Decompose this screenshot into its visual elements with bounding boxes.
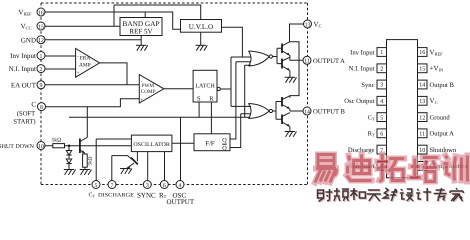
pin 14 OUTPUT B [303, 107, 346, 116]
pin 8 soft start [13, 101, 45, 126]
svg-text:12: 12 [419, 115, 425, 121]
svg-text:OUTPUT A: OUTPUT A [313, 58, 345, 65]
wire F/F Q to NOR A [230, 62, 251, 139]
pin 4 OSC OUTPUT [167, 181, 195, 207]
watermark slogan dark characters [318, 188, 465, 203]
svg-text:5kΩ: 5kΩ [52, 138, 62, 144]
svg-text:Q: Q [222, 137, 227, 144]
transistor Q4 output B bottom [282, 113, 290, 127]
wire latch output to NOR gates [220, 57, 251, 106]
svg-text:10: 10 [38, 144, 44, 150]
svg-text:LATCH: LATCH [195, 83, 215, 89]
svg-text:S: S [197, 95, 201, 102]
svg-text:15: 15 [38, 24, 44, 30]
NOR gate A [249, 51, 273, 66]
pin box 6 [377, 129, 387, 138]
pin box 10 [418, 145, 428, 154]
wire RT to pin 6 [164, 152, 166, 181]
wire blanking-shutdown line [69, 65, 251, 117]
svg-text:N.I. Input: N.I. Input [9, 65, 36, 73]
transistor Q2 output A bottom [282, 57, 290, 70]
svg-text:START): START) [13, 118, 35, 125]
IC boundary dashed box [41, 3, 308, 185]
svg-text:GND: GND [21, 36, 36, 44]
svg-text:REF 5V: REF 5V [129, 28, 152, 36]
pin 15 VCC [21, 22, 45, 31]
svg-text:CT: CT [89, 193, 96, 199]
node shutdown junction [68, 145, 71, 148]
ground (diodes) [64, 170, 76, 175]
svg-text:VC: VC [314, 21, 322, 29]
op-amp PWM comparator [139, 75, 164, 104]
svg-text:N.I. Input: N.I. Input [349, 66, 375, 73]
svg-text:PWM: PWM [142, 83, 155, 89]
pin 1 Inv Input [10, 52, 45, 61]
wire output A node [290, 55, 303, 60]
wire oscillator to F/F [172, 142, 194, 144]
pin 9 EA OUT [11, 81, 45, 90]
svg-text:(SOFT: (SOFT [17, 110, 35, 117]
svg-text:3: 3 [380, 83, 383, 89]
wire soft start line to PWM + input [46, 99, 140, 107]
svg-text:9: 9 [40, 83, 43, 89]
wire sync to pin 3 [147, 152, 149, 181]
wire VCC top supply rail [114, 5, 201, 26]
pin box 9 [418, 162, 428, 171]
pin box 16 [418, 48, 428, 57]
NOR gate B [249, 104, 273, 119]
svg-text:13: 13 [305, 22, 311, 28]
svg-text:Inv Input: Inv Input [350, 49, 375, 56]
wire R2 to ground [84, 167, 86, 169]
pin 7 DISCHARGE [98, 181, 135, 199]
pin box 11 [418, 129, 428, 138]
svg-text:+VIN: +VIN [430, 65, 444, 73]
wire osc output to pin 4 [180, 117, 182, 180]
pin 6 RT [159, 181, 168, 200]
diode D1 [66, 146, 71, 155]
wire VREF line [45, 12, 181, 29]
svg-text:5: 5 [95, 183, 98, 189]
svg-text:6: 6 [163, 183, 166, 189]
transistor Q5 shutdown [80, 107, 87, 153]
latch U4 [193, 70, 217, 102]
svg-text:SYNC: SYNC [137, 191, 156, 199]
pin 5 CT [89, 181, 101, 199]
ground (output B) [285, 132, 297, 137]
svg-text:Inv Input: Inv Input [10, 52, 36, 60]
ground (band gap) [136, 45, 148, 50]
wire latch R input / clock [210, 102, 212, 134]
pin 16 VREF [18, 8, 45, 17]
wire F/F Qbar to NOR B [230, 114, 251, 148]
svg-text:U.V.L.O: U.V.L.O [189, 23, 213, 31]
wire shutdown line into oscillator [45, 145, 131, 147]
svg-text:16: 16 [419, 50, 425, 56]
pin box 13 [418, 96, 428, 105]
svg-text:13: 13 [419, 99, 425, 105]
svg-text:VREF: VREF [430, 48, 444, 56]
wire GND line [45, 39, 141, 41]
svg-text:VC: VC [430, 97, 438, 105]
svg-text:OUTPUT: OUTPUT [167, 198, 195, 205]
pin 2 N.I. Input [9, 65, 45, 74]
svg-text:8: 8 [40, 105, 43, 111]
oscillator U5 [131, 135, 172, 152]
svg-text:12: 12 [38, 38, 44, 44]
svg-text:Ground: Ground [430, 114, 451, 121]
ground (R2) [80, 170, 92, 175]
svg-text:AMP: AMP [79, 63, 91, 69]
flip-flop U6 [194, 134, 230, 152]
svg-text:SHUT DOWN: SHUT DOWN [0, 144, 35, 150]
svg-text:1: 1 [40, 54, 43, 60]
pin box 4 [377, 96, 387, 105]
svg-text:R: R [209, 95, 214, 102]
wire output B node [290, 109, 303, 111]
wire UVLO output to NOR gates [222, 27, 243, 57]
wire PWM comparator output to latch [164, 88, 193, 90]
wire band gap ground stem [140, 36, 142, 46]
latch output bubble [217, 87, 220, 90]
ground (UVLO) [196, 45, 208, 50]
svg-text:5kΩ: 5kΩ [88, 156, 94, 165]
pin box 3 [377, 80, 387, 89]
svg-text:14: 14 [304, 109, 310, 115]
svg-text:ERA: ERA [80, 56, 91, 62]
svg-text:VREF: VREF [18, 9, 32, 17]
resistor R2 5k vertical [83, 154, 94, 167]
pin box 2 [377, 64, 387, 73]
wire CT to pin 5 and oscillator [96, 139, 131, 181]
svg-text:Shutdown: Shutdown [430, 147, 457, 154]
wire Q4 emitter to ground [289, 127, 291, 132]
svg-text:4: 4 [179, 183, 182, 189]
svg-text:OSCILLATOR: OSCILLATOR [133, 142, 170, 148]
resistor R1 5k [52, 138, 65, 148]
svg-text:RT: RT [368, 131, 375, 138]
diode D2 [66, 155, 71, 170]
svg-text:OUTPUT B: OUTPUT B [313, 109, 346, 116]
ground (output A) [285, 77, 297, 82]
transistor Q6 discharge [112, 152, 138, 181]
ground (discharge) [120, 169, 132, 174]
svg-text:7: 7 [111, 183, 114, 189]
svg-text:CT: CT [368, 114, 375, 121]
wire latch S input [198, 102, 200, 117]
pin 3 SYNC [137, 181, 156, 200]
svg-text:1: 1 [380, 50, 383, 56]
wire inv input to error amp [45, 55, 76, 57]
wire NOR A output to bases [273, 48, 283, 63]
pin box 14 [418, 80, 428, 89]
watermark logo big red characters [315, 155, 467, 183]
wire EA OUT / compensation line [45, 84, 139, 86]
svg-text:EA OUT: EA OUT [11, 81, 37, 89]
svg-text:11: 11 [304, 59, 310, 65]
pin box 12 [418, 113, 428, 122]
svg-text:COMP: COMP [141, 89, 156, 95]
pin 12 GND [21, 36, 45, 45]
wire Q2 emitter to ground [289, 71, 291, 78]
wire NOR B output to bases [273, 102, 283, 120]
svg-text:5: 5 [380, 115, 383, 121]
op-amp error amplifier [76, 49, 100, 78]
svg-text:DISCHARGE: DISCHARGE [98, 193, 135, 199]
svg-text:2: 2 [40, 67, 43, 73]
pin box 15 [418, 64, 428, 73]
band gap reference U2 [120, 18, 162, 36]
svg-text:Osc Output: Osc Output [344, 98, 374, 105]
wire VCC line [45, 25, 120, 27]
pin box 5 [377, 113, 387, 122]
svg-text:6: 6 [380, 132, 383, 138]
svg-text:16: 16 [38, 10, 44, 16]
svg-text:+: + [77, 71, 80, 76]
svg-text:VCC: VCC [21, 23, 32, 31]
svg-text:2: 2 [380, 67, 383, 73]
svg-text:Q: Q [222, 145, 227, 152]
wire VC to collectors [290, 24, 304, 98]
wire error amp output down to comp line [100, 63, 127, 85]
svg-text:3: 3 [146, 183, 149, 189]
wire N.I. input to error amp [45, 68, 76, 70]
pin box 1 [377, 48, 387, 57]
pin box 8 [377, 162, 387, 171]
DIP-16 package body [387, 40, 418, 178]
svg-text:10: 10 [419, 148, 425, 154]
pin box 7 [377, 145, 387, 154]
wire UVLO ground stem [200, 32, 202, 45]
svg-text:Sync: Sync [361, 82, 374, 89]
transistor Q1 output A top [282, 42, 290, 56]
svg-text:Output B: Output B [430, 82, 455, 89]
svg-text:15: 15 [419, 67, 425, 73]
svg-text:14: 14 [419, 83, 425, 89]
transistor Q3 output B top [282, 96, 290, 109]
U.V.L.O block U3 [181, 20, 222, 33]
pin 10 shutdown [0, 142, 45, 151]
svg-text:Output A: Output A [430, 131, 455, 138]
pin 13 VC [304, 20, 322, 29]
pin 11 OUTPUT A [303, 56, 345, 65]
svg-text:11: 11 [419, 132, 425, 138]
svg-text:4: 4 [380, 99, 383, 105]
svg-text:C: C [31, 101, 36, 109]
svg-text:+: + [140, 98, 143, 103]
svg-text:F/F: F/F [205, 141, 214, 148]
